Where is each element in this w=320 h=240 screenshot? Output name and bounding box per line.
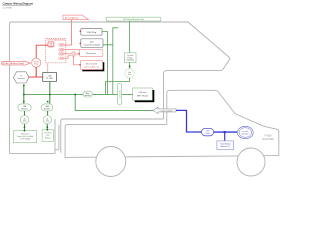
svg-text:Camper Wiring Diagram: Camper Wiring Diagram xyxy=(3,2,34,6)
svg-text:Air Conditioner: Air Conditioner xyxy=(65,16,79,19)
svg-text:in GP (450A): in GP (450A) xyxy=(20,137,31,140)
svg-text:Relay: Relay xyxy=(34,64,38,66)
svg-text:B-D: B-D xyxy=(90,41,94,43)
svg-text:F-350: F-350 xyxy=(265,133,272,137)
green 110V shore label box xyxy=(106,17,161,21)
green wire vertical x112.8 xyxy=(103,28,118,95)
black box OEM xyxy=(43,72,57,81)
battery box 2 xyxy=(42,130,53,142)
blue drop to battery xyxy=(224,132,226,141)
30A main box xyxy=(48,42,54,47)
truck bed rail outer xyxy=(61,119,164,153)
relay top wire xyxy=(36,45,48,58)
svg-text:camper umbilical: camper umbilical xyxy=(161,110,174,112)
shadow box C40 xyxy=(133,88,155,102)
svg-text:Outlet: Outlet xyxy=(205,132,210,135)
dashed circle xyxy=(125,69,134,78)
fuse 15A #3 xyxy=(59,53,64,56)
blue wire umbilical to outlet xyxy=(176,110,202,132)
red circle to all loads xyxy=(71,52,76,57)
fuse 15A #4 xyxy=(59,57,64,60)
svg-text:Transfer: Transfer xyxy=(33,61,39,63)
svg-text:Converter-Charger: Converter-Charger xyxy=(84,44,101,47)
svg-text:as 7/7/05: as 7/7/05 xyxy=(3,8,13,10)
cab back wall xyxy=(166,93,168,124)
alternator double circle xyxy=(237,126,253,138)
red wire AC to fuse1 xyxy=(64,20,72,45)
green wire from label to controller xyxy=(128,21,130,53)
red dashed breaker box xyxy=(46,39,66,63)
junction dots green xyxy=(23,66,130,132)
battery box 1 xyxy=(13,131,36,143)
svg-text:Generator: Generator xyxy=(17,77,25,80)
green drop to umbilical xyxy=(75,94,153,110)
fuse 15A #1 xyxy=(59,44,64,47)
svg-text:110V Plug: 110V Plug xyxy=(87,32,97,34)
svg-text:MPV YEL-BL: MPV YEL-BL xyxy=(137,95,148,97)
vertical converter stadium xyxy=(118,83,122,105)
box 110V plug xyxy=(81,29,102,36)
blue junction dot xyxy=(224,131,226,133)
svg-text:Breaker: Breaker xyxy=(44,109,51,111)
svg-text:11 U/50: 11 U/50 xyxy=(46,78,52,80)
umbilical arrow xyxy=(153,107,176,113)
svg-text:Microwave: Microwave xyxy=(86,52,97,55)
box misc outlets with shadow xyxy=(81,61,105,72)
svg-text:amp: amp xyxy=(46,121,49,123)
camper bottom edge xyxy=(10,119,56,153)
shore power label xyxy=(2,61,31,66)
column2 wire xyxy=(47,111,49,116)
cab roof windshield hood nose xyxy=(167,90,279,155)
main breaker stadium on bus xyxy=(83,91,92,97)
fuse 15A #2 xyxy=(59,48,64,51)
svg-text:Furn: Furn xyxy=(128,74,131,76)
transfer relay xyxy=(32,58,41,67)
blue 12V outlet stadium xyxy=(202,128,214,135)
svg-text:amp: amp xyxy=(23,121,26,123)
svg-text:C40 uses: C40 uses xyxy=(139,92,147,94)
column1 circle xyxy=(20,116,28,124)
green bus xyxy=(24,93,133,95)
green wire black box to bus xyxy=(49,82,51,104)
column2 circle xyxy=(43,116,51,124)
svg-text:-OB-: -OB- xyxy=(48,75,52,77)
svg-text:Breaker: Breaker xyxy=(21,109,28,111)
svg-text:(vent, outlets, tv): (vent, outlets, tv) xyxy=(85,66,99,69)
rear wheel xyxy=(96,147,126,177)
svg-text:110V Plug w/Twist-lock Term: 110V Plug w/Twist-lock Term xyxy=(123,18,145,21)
svg-text:Batteries (2): Batteries (2) xyxy=(220,145,230,148)
relay bottom wire xyxy=(36,67,43,77)
controller box xyxy=(124,53,136,63)
column2 stadium breaker xyxy=(41,104,53,111)
green wire hexagon to bus to stadium col1 xyxy=(23,85,25,104)
truck bed rail inner + bottom line xyxy=(65,125,279,158)
red wires from circle xyxy=(76,53,80,55)
truck starting battery box xyxy=(217,141,234,150)
svg-text:Misc 110-Volt: Misc 110-Volt xyxy=(86,62,98,65)
box microwave xyxy=(80,50,103,57)
red AC callout xyxy=(63,15,89,20)
column1 stadium breaker xyxy=(18,104,31,111)
camper body outline xyxy=(10,22,279,157)
svg-text:loads: loads xyxy=(72,54,75,56)
svg-text:110 VAC 30A Shore Power: 110 VAC 30A Shore Power xyxy=(2,62,24,65)
pink wire into black box top xyxy=(47,63,49,72)
svg-text:Converter: Converter xyxy=(118,90,121,98)
svg-text:Battery: Battery xyxy=(45,137,51,140)
hexagon generator xyxy=(13,72,29,83)
hexagon red wire xyxy=(29,76,36,78)
svg-text:Gas: Gas xyxy=(128,72,131,74)
blue wire outlet to alternator xyxy=(214,131,238,133)
green wire vertical x107.5 xyxy=(102,32,108,95)
column2 wire to battery xyxy=(46,124,48,130)
svg-text:Breaker: Breaker xyxy=(85,94,91,97)
svg-text:12V DC (Breaker) Box: 12V DC (Breaker) Box xyxy=(47,39,65,41)
box converter charger xyxy=(81,39,103,48)
fuse wires xyxy=(64,49,80,51)
wire circle to bus xyxy=(106,78,130,95)
wire controller to dashed circle xyxy=(129,63,131,69)
bed slot wall xyxy=(55,125,59,150)
svg-text:P/U P/SD: P/U P/SD xyxy=(262,137,273,141)
red connection dots xyxy=(78,31,81,66)
column1 wire xyxy=(24,111,26,116)
svg-text:Controller: Controller xyxy=(126,59,134,62)
front wheel xyxy=(237,148,265,176)
column1 wire to battery xyxy=(24,124,26,131)
svg-text:main: main xyxy=(49,45,53,47)
